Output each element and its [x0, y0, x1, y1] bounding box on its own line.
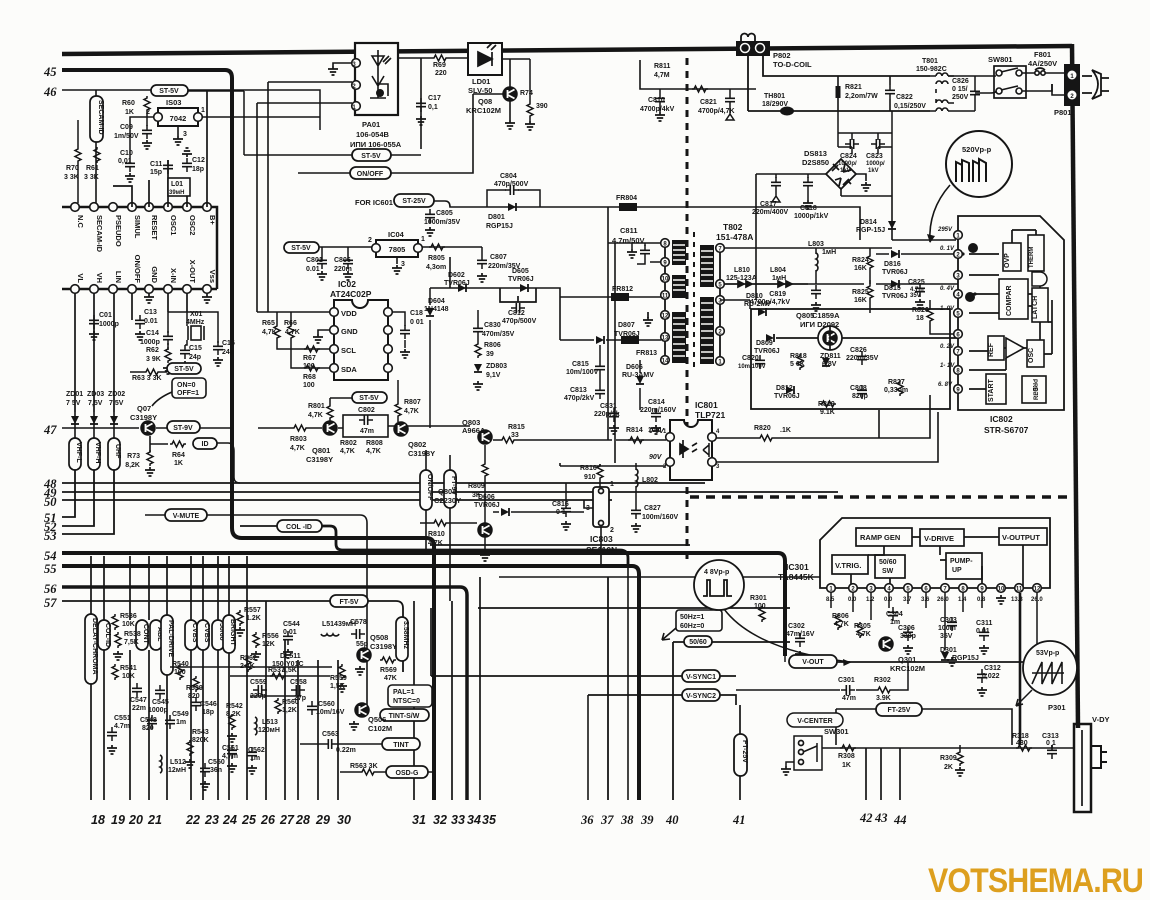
diode D815	[891, 280, 899, 288]
resistor R541	[112, 664, 118, 680]
svg-text:21: 21	[147, 813, 162, 827]
svg-text:39: 39	[486, 351, 494, 358]
pill V-MUTE	[165, 509, 207, 521]
box START	[986, 374, 1006, 404]
svg-text:2: 2	[368, 237, 372, 244]
svg-text:COL -ID: COL -ID	[286, 524, 312, 531]
coil T802 secondary lower	[700, 297, 714, 364]
svg-text:R827: R827	[888, 379, 905, 386]
svg-text:33: 33	[511, 432, 519, 439]
svg-text:FT-5V: FT-5V	[339, 599, 358, 606]
svg-text:NTSC=0: NTSC=0	[393, 698, 420, 705]
svg-text:16K: 16K	[854, 265, 867, 272]
wire VDD rail	[257, 312, 330, 324]
svg-text:390: 390	[536, 103, 548, 110]
capacitor C831	[609, 408, 619, 422]
svg-text:THERM: THERM	[1029, 247, 1035, 268]
svg-text:Q08: Q08	[478, 97, 492, 106]
svg-text:36: 36	[580, 813, 594, 827]
svg-text:2K: 2K	[944, 764, 953, 771]
dashed isolation vertical	[686, 58, 689, 560]
svg-text:V-DRIVE: V-DRIVE	[924, 534, 954, 543]
thermistor TH801	[780, 107, 794, 116]
svg-text:0,1: 0,1	[428, 104, 438, 111]
wire Q07 connections	[150, 428, 232, 452]
svg-text:24p: 24p	[222, 349, 234, 356]
svg-text:330p: 330p	[900, 633, 916, 640]
svg-text:0 01: 0 01	[410, 319, 424, 326]
svg-text:C802: C802	[358, 407, 375, 414]
svg-text:26.0: 26.0	[937, 597, 949, 603]
wire LD01 to Q08	[502, 59, 530, 120]
svg-text:COMPAR: COMPAR	[1006, 285, 1013, 316]
ground Q508	[355, 666, 365, 675]
svg-text:C306: C306	[898, 625, 915, 632]
pill ON/OFF	[350, 167, 391, 179]
svg-text:55: 55	[44, 562, 57, 576]
svg-text:C823: C823	[866, 153, 883, 160]
IC IS03 7042	[158, 108, 198, 126]
ground IC04 pin3	[396, 257, 398, 264]
resistor R536	[112, 614, 118, 630]
svg-text:DL511: DL511	[280, 653, 301, 660]
node T802 pin13	[661, 333, 670, 342]
wire D814 to IC802	[720, 240, 956, 248]
transistor Q508	[357, 648, 371, 662]
svg-text:OSD-G: OSD-G	[396, 770, 420, 777]
svg-text:Q801: Q801	[312, 446, 330, 455]
wire V-OUT right	[837, 661, 1037, 663]
svg-text:DELAY-CHROMA: DELAY-CHROMA	[91, 618, 98, 675]
svg-text:220m/400V: 220m/400V	[752, 209, 789, 216]
svg-text:RU-2MV: RU-2MV	[744, 301, 771, 308]
resistor R70	[75, 147, 81, 163]
wire pin44	[899, 748, 901, 800]
svg-text:C15: C15	[189, 345, 202, 352]
coil T802 primary upper	[672, 240, 686, 265]
svg-text:R820: R820	[754, 425, 771, 432]
svg-text:VL: VL	[76, 273, 85, 283]
IC IC04 7805	[376, 240, 418, 257]
svg-text:V.TRIG.: V.TRIG.	[835, 561, 861, 570]
resistor R569	[380, 657, 396, 663]
svg-text:VHF-H: VHF-H	[94, 442, 101, 463]
svg-text:47m: 47m	[360, 428, 374, 435]
svg-text:R60: R60	[122, 100, 135, 107]
svg-text:SDA: SDA	[341, 365, 357, 374]
svg-text:KRC102M: KRC102M	[466, 106, 501, 115]
svg-text:100m/160V: 100m/160V	[642, 514, 679, 521]
capacitor C547	[132, 683, 142, 697]
svg-text:L804: L804	[770, 267, 786, 274]
resistor R318	[1016, 745, 1032, 751]
svg-text:D815: D815	[884, 285, 901, 292]
node T802 pin2	[716, 327, 725, 336]
svg-text:7,5V: 7,5V	[88, 400, 103, 407]
svg-text:10m/16V: 10m/16V	[316, 709, 345, 716]
svg-text:35: 35	[482, 813, 497, 827]
resistor R803	[292, 425, 308, 431]
svg-text:26: 26	[260, 813, 276, 827]
capacitor C11	[163, 160, 173, 174]
wire pin50	[62, 499, 612, 501]
svg-text:120мH: 120мH	[258, 727, 280, 734]
wire pin53	[62, 470, 114, 534]
wire ON/OFF vert	[425, 450, 427, 553]
capacitor C550	[200, 763, 210, 777]
svg-text:2,2om/7W: 2,2om/7W	[845, 93, 878, 100]
pill FT-25V vert	[734, 734, 747, 776]
diode D810	[758, 308, 766, 316]
svg-text:0.22m: 0.22m	[336, 747, 356, 754]
wire q805 internals	[776, 326, 958, 350]
diode D604	[426, 308, 434, 316]
svg-text:35V: 35V	[940, 633, 953, 640]
svg-text:9,1V: 9,1V	[486, 372, 501, 379]
svg-text:24p: 24p	[189, 354, 201, 361]
resistor R306	[835, 614, 841, 630]
node row1 labels	[76, 215, 217, 253]
pill VHF-H	[88, 438, 100, 470]
svg-text:ST-25V: ST-25V	[402, 198, 426, 205]
capacitor C818	[803, 177, 813, 191]
wire PA01 pin2 left	[257, 82, 352, 103]
svg-text:30: 30	[337, 813, 351, 827]
svg-text:D810: D810	[746, 293, 763, 300]
svg-text:C801: C801	[306, 257, 323, 264]
box V-OUTPUT	[999, 528, 1047, 545]
svg-text:0 15/: 0 15/	[952, 86, 968, 93]
svg-text:CONT: CONT	[142, 624, 149, 645]
svg-text:R73: R73	[127, 453, 140, 460]
svg-text:D809: D809	[756, 340, 773, 347]
node T802 pin11	[661, 291, 670, 300]
pill COL-ID	[277, 520, 322, 532]
capacitor C560	[307, 701, 317, 715]
svg-text:D606: D606	[478, 494, 495, 501]
svg-text:18: 18	[91, 813, 105, 827]
pill 3.58MHz	[396, 617, 408, 661]
svg-text:C311: C311	[976, 620, 992, 627]
node T802 pin7	[716, 244, 725, 253]
svg-text:4,7K: 4,7K	[290, 445, 305, 452]
svg-text:D2S850: D2S850	[802, 158, 829, 167]
svg-text:7,5K: 7,5K	[124, 639, 139, 646]
svg-text:R62: R62	[146, 347, 159, 354]
capacitor C825	[915, 283, 925, 297]
svg-text:34: 34	[467, 813, 481, 827]
svg-text:LIN: LIN	[114, 271, 123, 283]
svg-text:OSC1: OSC1	[169, 215, 178, 235]
svg-text:L514: L514	[322, 621, 338, 628]
svg-text:C825: C825	[908, 279, 925, 286]
svg-text:C545: C545	[152, 699, 169, 706]
svg-text:ZD01: ZD01	[66, 391, 83, 398]
svg-text:TVR06J: TVR06J	[508, 276, 534, 283]
svg-text:C578: C578	[350, 619, 367, 626]
wire 36 drop	[587, 695, 589, 800]
svg-text:100: 100	[174, 669, 186, 676]
svg-text:106-054B: 106-054B	[356, 130, 390, 139]
capacitor C826	[948, 76, 975, 111]
svg-text:R801: R801	[308, 403, 325, 410]
box THERM	[1028, 235, 1044, 271]
svg-text:43: 43	[874, 811, 888, 825]
svg-text:R539: R539	[186, 685, 203, 692]
svg-text:ST-5V: ST-5V	[159, 88, 179, 95]
capacitor C816	[561, 503, 571, 517]
fuse F801	[1022, 73, 1057, 91]
resistor R63	[144, 369, 160, 375]
resistor R814	[628, 437, 644, 443]
svg-text:150-982C: 150-982C	[916, 66, 947, 73]
connector V-DY body	[1074, 724, 1091, 812]
fuse FR813	[621, 336, 639, 344]
pill V-SYNC1	[682, 670, 720, 682]
svg-text:R805: R805	[428, 255, 445, 262]
svg-text:6. 8V: 6. 8V	[938, 382, 953, 388]
svg-text:PUMP-: PUMP-	[950, 558, 973, 565]
wire sw out	[822, 747, 1075, 749]
svg-text:R69: R69	[433, 62, 446, 69]
node IC802 pin6	[954, 330, 963, 339]
label 50Hz box	[676, 610, 722, 631]
pill PAL-DRIVE	[161, 615, 173, 675]
node IC802 pin4	[954, 290, 963, 299]
wire pin46	[62, 90, 320, 130]
svg-text:22: 22	[185, 813, 200, 827]
wire IS03 pin1 right	[202, 91, 320, 155]
svg-text:4,7m: 4,7m	[222, 753, 238, 760]
zener ZD02	[110, 416, 118, 424]
wire zener drops	[75, 412, 114, 438]
svg-text:L803: L803	[808, 241, 824, 248]
box PUMP-UP	[946, 553, 982, 579]
waveform circle 520Vp-p	[946, 131, 1012, 197]
capacitor C15	[180, 345, 190, 359]
pill OSD-G	[386, 766, 428, 778]
svg-text:C831: C831	[600, 403, 617, 410]
resistor R560	[275, 698, 281, 714]
svg-text:C2230Y: C2230Y	[434, 496, 461, 505]
pill ST-9V	[167, 421, 200, 433]
wire pin drops	[785, 593, 1037, 662]
svg-text:T802: T802	[723, 222, 743, 232]
svg-text:V-CENTER: V-CENTER	[797, 718, 832, 725]
IC IC802 outline	[958, 216, 1064, 410]
wire 38 drop	[627, 566, 629, 800]
svg-text:2: 2	[610, 527, 614, 534]
svg-text:C818: C818	[800, 205, 817, 212]
svg-text:220m/160V: 220m/160V	[640, 407, 677, 414]
coil T802 secondary upper	[700, 245, 714, 287]
svg-text:0,022: 0,022	[982, 673, 1000, 680]
svg-text:SECAM-ID: SECAM-ID	[97, 100, 104, 135]
pill TINT	[382, 738, 420, 750]
capacitor C810	[655, 93, 665, 107]
svg-text:C805: C805	[436, 210, 453, 217]
svg-text:ON/OFF: ON/OFF	[133, 255, 142, 284]
capacitor C562	[247, 747, 257, 761]
wire pin45 bus	[62, 70, 434, 800]
svg-text:TO-D-COIL: TO-D-COIL	[773, 60, 812, 69]
node row2 labels	[76, 255, 217, 284]
svg-text:ST-5V: ST-5V	[291, 245, 311, 252]
svg-text:UHF: UHF	[114, 444, 121, 459]
svg-text:BRIGHT: BRIGHT	[229, 619, 236, 647]
svg-text:R543: R543	[192, 729, 209, 736]
svg-text:SW301: SW301	[824, 727, 849, 736]
capacitor C802 box	[343, 415, 388, 437]
wire pin51	[62, 470, 75, 517]
pill FT-25V mid	[876, 703, 922, 716]
svg-text:1000p: 1000p	[140, 339, 160, 346]
svg-text:R318: R318	[1012, 733, 1029, 740]
svg-text:IC04: IC04	[388, 230, 405, 239]
svg-text:1000m/35V: 1000m/35V	[424, 219, 461, 226]
resistor R542	[229, 714, 235, 730]
svg-text:1: 1	[201, 107, 205, 114]
resistor R60	[144, 96, 150, 112]
pill ST-5V	[151, 85, 188, 96]
svg-text:RAMP GEN: RAMP GEN	[860, 533, 900, 542]
wire IS03 pin2 left	[130, 117, 154, 158]
resistor R821	[836, 86, 841, 98]
diode D602	[458, 284, 466, 292]
capacitor C824	[845, 139, 859, 149]
svg-text:39мН: 39мН	[169, 190, 184, 196]
svg-text:1,5K: 1,5K	[330, 683, 345, 690]
capacitor C304	[888, 607, 898, 621]
svg-text:D816: D816	[884, 261, 901, 268]
svg-text:C3198Y: C3198Y	[130, 413, 157, 422]
piezo symbol inside PA01	[370, 50, 391, 98]
capacitor C545	[155, 685, 165, 699]
pill TINT-S/W	[380, 709, 429, 721]
svg-text:ZD803: ZD803	[486, 363, 507, 370]
switch SW301	[794, 736, 822, 770]
gate AND	[1032, 272, 1047, 286]
svg-text:GND: GND	[341, 327, 358, 336]
pill FT-9V vert	[444, 470, 456, 508]
ground PA01 pin3	[333, 63, 352, 66]
ground IC02 GND	[318, 330, 330, 334]
wire 50Hz arrow	[662, 628, 676, 640]
diode D301	[941, 652, 949, 660]
wire T802 right spine	[719, 248, 721, 361]
svg-text:C562: C562	[248, 747, 265, 754]
pill V-OUT	[789, 655, 837, 668]
resistor R543	[187, 740, 193, 756]
node IC802 pin3	[954, 271, 963, 280]
svg-text:C11: C11	[150, 161, 163, 168]
diode bridge DS813	[826, 159, 856, 189]
svg-text:R65: R65	[262, 320, 275, 327]
svg-text:31: 31	[412, 813, 426, 827]
svg-text:R815: R815	[508, 424, 525, 431]
svg-text:P801: P801	[1054, 108, 1072, 117]
wire row1 risers	[113, 91, 207, 207]
node IC802 pin9	[954, 385, 963, 394]
svg-text:44: 44	[893, 813, 907, 827]
svg-text:REF: REF	[988, 342, 995, 357]
svg-text:1: 1	[421, 236, 425, 243]
svg-text:56: 56	[44, 582, 57, 596]
svg-text:TVR06J: TVR06J	[754, 348, 780, 355]
svg-text:R803: R803	[290, 436, 307, 443]
svg-text:IC301: IC301	[786, 562, 809, 572]
wire arrow 48 to vtrig	[724, 609, 850, 662]
resistor R815	[500, 437, 516, 443]
capacitor C10	[125, 158, 135, 172]
svg-text:R826: R826	[912, 307, 929, 314]
svg-text:C3198Y: C3198Y	[370, 642, 397, 651]
svg-text:OSC: OSC	[1028, 348, 1035, 363]
svg-text:470p/500V: 470p/500V	[502, 318, 537, 325]
node IC802 pin7	[954, 347, 963, 356]
resistor R308	[840, 745, 856, 751]
svg-text:ZD03: ZD03	[87, 391, 104, 398]
resistor R819	[820, 401, 836, 407]
box LATCH	[1032, 288, 1048, 322]
svg-text:20: 20	[128, 813, 143, 827]
connector P802	[736, 41, 770, 56]
svg-text:32: 32	[433, 813, 447, 827]
svg-text:VDD: VDD	[341, 309, 357, 318]
svg-text:R308: R308	[838, 753, 855, 760]
svg-text:RGP15J: RGP15J	[486, 223, 513, 230]
svg-text:C817: C817	[760, 201, 777, 208]
svg-text:90V: 90V	[649, 454, 663, 461]
wire rail y288	[430, 257, 560, 340]
transistor Q805	[823, 331, 837, 345]
pill COL-ID2	[98, 620, 110, 650]
svg-text:0,15/250V: 0,15/250V	[894, 103, 926, 110]
svg-text:D801: D801	[488, 214, 505, 221]
node T802 pin5	[716, 280, 725, 289]
capacitor C549	[165, 715, 175, 729]
resistor R74	[527, 102, 533, 118]
svg-text:ИГИ D2092: ИГИ D2092	[800, 320, 839, 329]
resistor R73	[147, 450, 153, 466]
capacitor C16	[213, 341, 223, 355]
core T802 dashes	[693, 232, 695, 372]
pill BRIGHT	[223, 615, 235, 653]
wire ID right	[217, 443, 240, 483]
svg-text:C563: C563	[322, 731, 339, 738]
svg-text:820p: 820p	[852, 393, 868, 400]
diode LD01	[468, 43, 502, 75]
svg-text:5 6K: 5 6K	[790, 361, 805, 368]
svg-text:Q804: Q804	[438, 487, 457, 496]
resistor R61	[94, 147, 100, 163]
svg-text:C815: C815	[572, 361, 589, 368]
svg-text:R560: R560	[282, 699, 299, 706]
capacitor C822	[885, 85, 895, 99]
pill ABL	[150, 620, 162, 650]
svg-text:ZD811: ZD811	[820, 353, 841, 360]
svg-text:D602: D602	[448, 272, 465, 279]
svg-text:C549: C549	[172, 711, 189, 718]
svg-text:R557: R557	[244, 607, 261, 614]
pill ID	[193, 438, 217, 449]
svg-text:0,01: 0,01	[118, 158, 132, 165]
diode D608	[501, 508, 509, 516]
pill CVBS1	[185, 620, 197, 650]
svg-text:C827: C827	[644, 505, 661, 512]
svg-text:54: 54	[44, 549, 57, 563]
svg-text:6,8V: 6,8V	[822, 361, 837, 368]
